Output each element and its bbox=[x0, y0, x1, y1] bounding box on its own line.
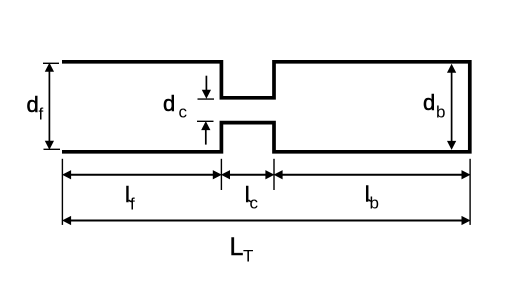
dimension arrow db bbox=[448, 65, 456, 149]
svg-text:c: c bbox=[250, 194, 259, 213]
svg-text:c: c bbox=[179, 103, 188, 122]
extension line df top bbox=[43, 62, 59, 64]
dimension arrow df bbox=[46, 64, 54, 149]
svg-text:d: d bbox=[27, 92, 39, 117]
dimension arrow lc bbox=[222, 171, 273, 179]
dimension arrow LT bbox=[63, 217, 469, 225]
dimension arrow lb bbox=[275, 171, 470, 179]
extension line right bottom bbox=[469, 159, 471, 225]
svg-text:f: f bbox=[130, 195, 135, 214]
dimension arrow dc bottom bbox=[202, 122, 210, 144]
extension line dc bottom bbox=[197, 120, 214, 122]
svg-text:f: f bbox=[39, 105, 44, 124]
dimension arrow lf bbox=[63, 171, 221, 179]
svg-text:d: d bbox=[163, 91, 175, 116]
extension line lc-lb bbox=[273, 159, 275, 190]
svg-text:b: b bbox=[436, 103, 445, 122]
extension line lf-lc bbox=[220, 159, 222, 190]
svg-text:T: T bbox=[243, 247, 253, 266]
svg-text:b: b bbox=[370, 193, 379, 212]
svg-text:d: d bbox=[423, 90, 435, 115]
extension line left bottom bbox=[61, 159, 63, 225]
extension line dc top bbox=[198, 98, 215, 100]
dimension arrow dc top bbox=[203, 76, 211, 98]
specimen outline bbox=[62, 62, 470, 152]
extension line df bottom bbox=[44, 148, 61, 150]
svg-text:L: L bbox=[230, 233, 244, 261]
